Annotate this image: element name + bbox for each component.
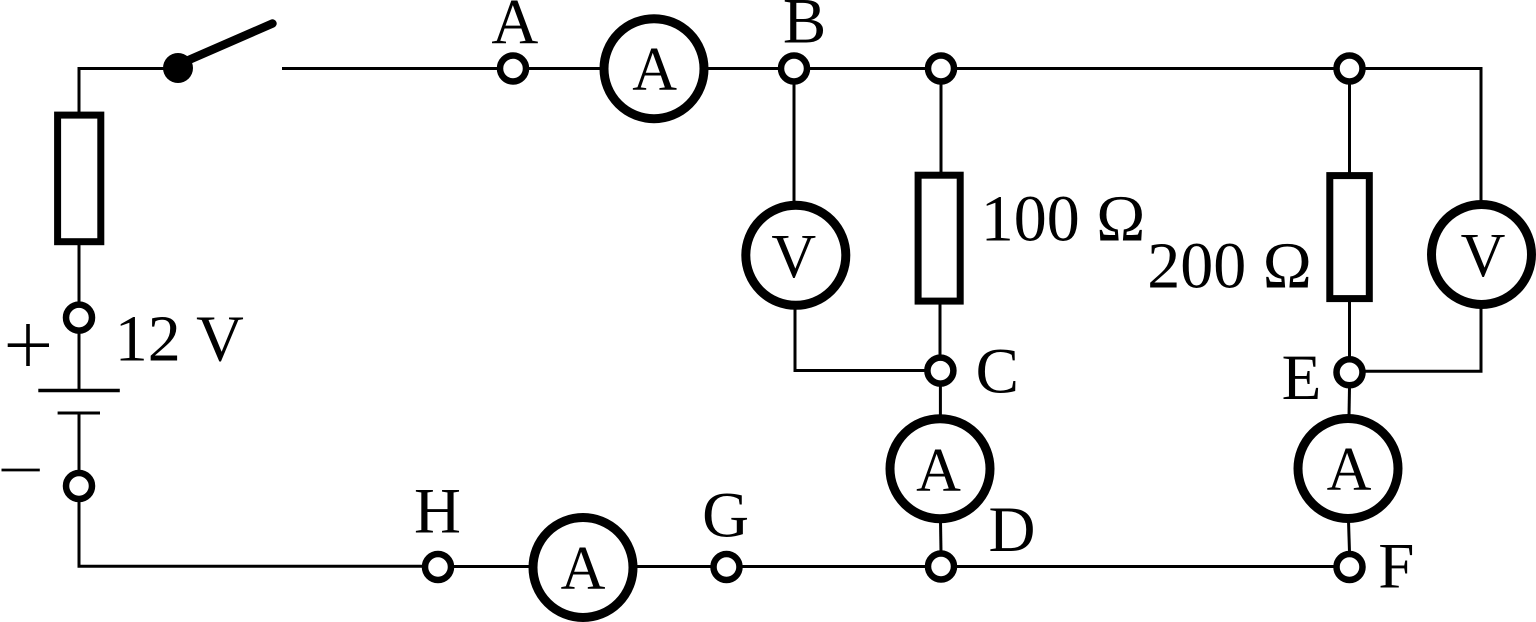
wire voltmeter 1 down and right to node C xyxy=(795,308,925,371)
label minus xyxy=(2,469,40,472)
wire switch to node A xyxy=(282,67,498,70)
label + xyxy=(8,324,49,366)
junction node top-right xyxy=(1337,56,1363,82)
battery - terminal circle xyxy=(66,473,92,499)
wire battery to - terminal xyxy=(78,415,81,472)
svg-text:A: A xyxy=(561,535,606,603)
node D xyxy=(928,554,954,580)
wire ammeter 1 to node B xyxy=(706,67,780,70)
battery short plate xyxy=(58,412,100,415)
wire top-left horizontal to switch xyxy=(79,67,168,70)
wire ammeter 4 to node G xyxy=(636,565,712,568)
svg-text:A: A xyxy=(491,0,538,59)
junction node above 100-ohm resistor xyxy=(928,56,954,82)
svg-text:G: G xyxy=(702,480,749,552)
wire ammeter 2 to node D xyxy=(939,521,943,552)
svg-text:D: D xyxy=(989,494,1036,566)
battery long plate xyxy=(38,389,120,393)
battery + terminal circle xyxy=(66,305,92,331)
wire top-right node to corner and down to voltmeter 2 xyxy=(1365,69,1482,203)
ammeter 1 (top) xyxy=(604,19,704,119)
svg-text:A: A xyxy=(1327,436,1372,504)
svg-text:A: A xyxy=(916,437,961,505)
wire node B to 100-ohm branch node xyxy=(809,67,926,70)
voltmeter 2 (right V) xyxy=(1432,205,1532,305)
node E xyxy=(1337,359,1363,385)
node H xyxy=(425,554,451,580)
wire node C to ammeter 2 xyxy=(939,386,942,416)
svg-text:E: E xyxy=(1282,342,1322,414)
svg-text:C: C xyxy=(976,336,1019,408)
svg-text:A: A xyxy=(632,36,677,104)
svg-text:100 Ω: 100 Ω xyxy=(981,183,1146,256)
node G xyxy=(714,554,740,580)
resistor 200 ohm xyxy=(1330,176,1370,299)
wire - terminal down to bottom-left corner xyxy=(79,501,423,566)
wire voltmeter 2 down and left to node E xyxy=(1365,307,1482,371)
switch S pivot dot xyxy=(163,53,193,83)
svg-text:200 Ω: 200 Ω xyxy=(1147,230,1312,303)
wire node A to ammeter 1 xyxy=(528,67,606,70)
switch S lever xyxy=(183,24,273,63)
svg-text:V: V xyxy=(771,223,816,291)
wire 200-ohm resistor to node E xyxy=(1348,301,1351,358)
wire ammeter 3 to node F xyxy=(1349,521,1350,552)
svg-text:B: B xyxy=(783,0,826,58)
resistor 100 ohm xyxy=(918,175,960,301)
svg-text:V: V xyxy=(1461,222,1506,290)
svg-text:H: H xyxy=(414,476,461,548)
resistor (left, battery series) xyxy=(58,115,101,242)
ammeter 4 (bottom) xyxy=(533,518,633,618)
node B xyxy=(781,56,807,82)
wire resistor to battery + terminal xyxy=(78,244,81,303)
wire to top-right node xyxy=(956,67,1335,70)
wire node E to ammeter 3 xyxy=(1348,388,1352,417)
ammeter 2 (middle) xyxy=(890,419,990,519)
svg-text:F: F xyxy=(1378,531,1414,603)
wire node B down to voltmeter 1 xyxy=(793,83,796,202)
wire terminal to battery plate xyxy=(78,332,81,389)
wire top-right node down to 200-ohm resistor xyxy=(1348,83,1351,174)
wire node G to node D xyxy=(742,565,927,568)
wire node D to node F xyxy=(956,565,1335,568)
svg-text:12 V: 12 V xyxy=(115,303,244,376)
wire 100-ohm resistor to node C xyxy=(939,303,942,356)
node C xyxy=(927,358,953,384)
wire node H to ammeter 4 xyxy=(453,565,530,568)
node A xyxy=(500,56,526,82)
wire junction node down to 100-ohm resistor xyxy=(940,83,943,174)
voltmeter 1 (V) xyxy=(746,205,846,305)
wire top-left corner down to left resistor xyxy=(78,67,81,114)
node F xyxy=(1337,554,1363,580)
ammeter 3 (right) xyxy=(1298,419,1398,519)
